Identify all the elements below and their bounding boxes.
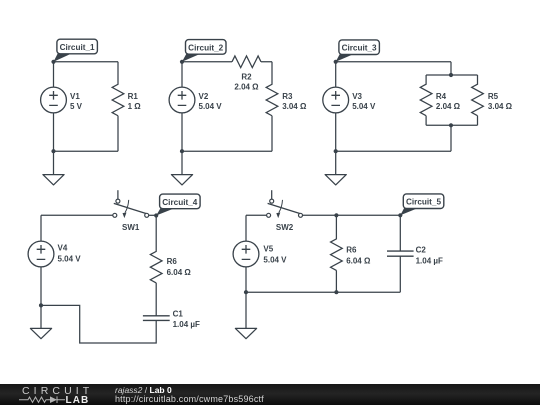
svg-text:3.04 Ω: 3.04 Ω bbox=[282, 102, 307, 111]
wire: Circuit 4 top rail to SW1 bbox=[41, 214, 113, 216]
svg-text:SW1: SW1 bbox=[122, 223, 140, 232]
node: Circuit 2 bottom-left junction bbox=[180, 149, 184, 153]
svg-text:V1: V1 bbox=[70, 92, 80, 101]
ground: Circuit 5 bbox=[245, 292, 247, 328]
svg-text:R1: R1 bbox=[128, 92, 139, 101]
ground: Circuit 1 bbox=[53, 151, 55, 174]
voltage source V4 5.04 V bbox=[28, 241, 54, 267]
node: SW2-R6 junction bbox=[334, 213, 338, 217]
svg-text:3.04 Ω: 3.04 Ω bbox=[488, 102, 513, 111]
svg-text:R3: R3 bbox=[282, 92, 293, 101]
svg-text:R5: R5 bbox=[488, 92, 499, 101]
svg-text:V2: V2 bbox=[199, 92, 209, 101]
footer credit line: rajass2 / Lab 0 bbox=[115, 386, 172, 395]
node: Circuit 5 bottom-left junction bbox=[244, 290, 248, 294]
svg-text:6.04 Ω: 6.04 Ω bbox=[346, 257, 371, 266]
node: Circuit 2 top-left junction bbox=[180, 60, 184, 64]
ground: Circuit 2 bbox=[181, 151, 183, 174]
wire: Circuit 1 bottom rail bbox=[54, 150, 119, 152]
net label callout Circuit_2 bbox=[182, 54, 201, 62]
svg-text:5.04 V: 5.04 V bbox=[199, 102, 223, 111]
footer URL bbox=[115, 395, 264, 404]
wire: SW2 to Circuit_5 corner node bbox=[303, 214, 401, 216]
wire: C2 bottom lead bbox=[399, 256, 401, 292]
wire: V2 minus to bottom node bbox=[181, 113, 183, 151]
node: Circuit 1 top-left junction bbox=[51, 60, 55, 64]
resistor R1 1 ohm (right rail) bbox=[112, 62, 124, 151]
svg-text:Circuit_5: Circuit_5 bbox=[406, 198, 441, 207]
svg-text:SW2: SW2 bbox=[276, 223, 294, 232]
svg-text:2.04 Ω: 2.04 Ω bbox=[436, 102, 461, 111]
net label callout Circuit_1 bbox=[54, 53, 73, 62]
wire: Circuit 2 bottom rail bbox=[182, 150, 272, 152]
wire: V5 plus up to top rail bbox=[245, 215, 247, 241]
wire: V5 minus to bottom node bbox=[245, 267, 247, 292]
wire: V1 minus to bottom node bbox=[53, 113, 55, 151]
wire: V3 minus to bottom node bbox=[335, 113, 337, 151]
svg-text:5.04 V: 5.04 V bbox=[352, 102, 376, 111]
resistor R6 6.04 ohm (Circuit 4) bbox=[150, 215, 162, 315]
ground: Circuit 3 bbox=[335, 151, 337, 174]
svg-text:6.04 Ω: 6.04 Ω bbox=[167, 268, 192, 277]
wire: Circuit 1 left rail upper (node A to V1 plus) bbox=[53, 62, 55, 87]
node: Circuit 3 top-left junction bbox=[334, 60, 338, 64]
wire: stem from top rail into parallel block bbox=[450, 62, 452, 75]
wire: Circuit 3 top rail bbox=[336, 61, 451, 63]
voltage source V2 5.04 V bbox=[169, 87, 195, 113]
wire: Circuit 2 left rail upper bbox=[181, 62, 183, 87]
CircuitLab logo wordmark LAB bbox=[66, 396, 90, 406]
svg-text:Circuit_2: Circuit_2 bbox=[188, 43, 223, 52]
wire: parallel block bottom rail bbox=[426, 124, 477, 126]
wire: V4 plus up to top rail bbox=[40, 215, 42, 241]
node: Circuit 3 bottom-left junction bbox=[334, 149, 338, 153]
node: Circuit 1 bottom-left junction bbox=[51, 149, 55, 153]
svg-text:V4: V4 bbox=[58, 244, 68, 253]
wire: Circuit 5 bottom rail bbox=[246, 291, 400, 293]
CircuitLab logo wordmark CIRCUIT bbox=[22, 386, 93, 397]
wire: Circuit 2 top rail left segment bbox=[182, 61, 232, 63]
wire: parallel block top rail bbox=[426, 74, 477, 76]
svg-text:R6: R6 bbox=[167, 257, 178, 266]
wire: Circuit 5 top rail to SW2 bbox=[246, 214, 267, 216]
voltage source V1 5 V bbox=[41, 87, 67, 113]
svg-text:1 Ω: 1 Ω bbox=[128, 102, 142, 111]
wire: Circuit 3 left rail upper bbox=[335, 62, 337, 87]
svg-text:C2: C2 bbox=[416, 246, 427, 255]
svg-text:5 V: 5 V bbox=[70, 102, 83, 111]
wire: Circuit 3 bottom rail bbox=[336, 150, 451, 152]
wire: Circuit 1 top rail node A to R1 bbox=[54, 61, 119, 63]
wire: V4 minus to bottom node bbox=[40, 267, 42, 306]
CircuitLab logo squiggle (resistor + diode) bbox=[18, 395, 68, 405]
svg-text:V5: V5 bbox=[263, 245, 273, 254]
svg-text:C1: C1 bbox=[173, 310, 184, 319]
net label callout Circuit_5 bbox=[400, 208, 419, 216]
node: Circuit 4 top node at R6 bbox=[154, 213, 158, 217]
node: Circuit 5 corner node at C2 bbox=[398, 213, 402, 217]
resistor R2 2.04 ohm (horizontal, top) bbox=[232, 56, 272, 68]
voltage source V3 5.04 V bbox=[323, 87, 349, 113]
svg-text:1.04 µF: 1.04 µF bbox=[416, 257, 443, 266]
svg-text:5.04 V: 5.04 V bbox=[263, 256, 287, 265]
resistor R4 2.04 ohm bbox=[420, 75, 432, 125]
node: Circuit 4 bottom-left junction bbox=[39, 303, 43, 307]
ground: Circuit 4 bbox=[40, 305, 42, 328]
wire: stem from parallel block to bottom rail bbox=[450, 125, 452, 151]
svg-text:R4: R4 bbox=[436, 92, 447, 101]
wire: C2 top lead bbox=[399, 215, 401, 251]
resistor R5 3.04 ohm bbox=[472, 75, 484, 125]
capacitor C1 1.04 uF bbox=[143, 316, 170, 321]
svg-text:V3: V3 bbox=[352, 92, 362, 101]
svg-text:Circuit_4: Circuit_4 bbox=[162, 198, 197, 207]
node: parallel block bottom junction bbox=[449, 123, 453, 127]
svg-text:Circuit_3: Circuit_3 bbox=[342, 44, 377, 53]
wire: C1 bottom lead and return path to V4 bbox=[41, 305, 156, 343]
net label callout Circuit_4 bbox=[156, 208, 175, 216]
node: parallel block top junction bbox=[449, 73, 453, 77]
switch SW2 bbox=[271, 190, 273, 199]
svg-text:5.04 V: 5.04 V bbox=[58, 255, 82, 264]
resistor R3 3.04 ohm (right rail) bbox=[266, 62, 278, 151]
svg-text:2.04 Ω: 2.04 Ω bbox=[234, 82, 259, 91]
svg-text:Circuit_1: Circuit_1 bbox=[60, 43, 95, 52]
capacitor C2 1.04 uF bbox=[387, 251, 414, 256]
node: R6 bottom junction bbox=[334, 290, 338, 294]
switch SW1 bbox=[117, 190, 119, 199]
svg-text:1.04 µF: 1.04 µF bbox=[173, 320, 200, 329]
footer bar bbox=[0, 384, 540, 405]
svg-text:R6: R6 bbox=[346, 246, 357, 255]
resistor R6 6.04 ohm (Circuit 5) bbox=[331, 215, 343, 292]
net label callout Circuit_3 bbox=[336, 54, 355, 62]
voltage source V5 5.04 V bbox=[233, 241, 259, 267]
svg-text:R2: R2 bbox=[241, 72, 252, 81]
wire: SW1 to Circuit_4 node bbox=[149, 214, 157, 216]
